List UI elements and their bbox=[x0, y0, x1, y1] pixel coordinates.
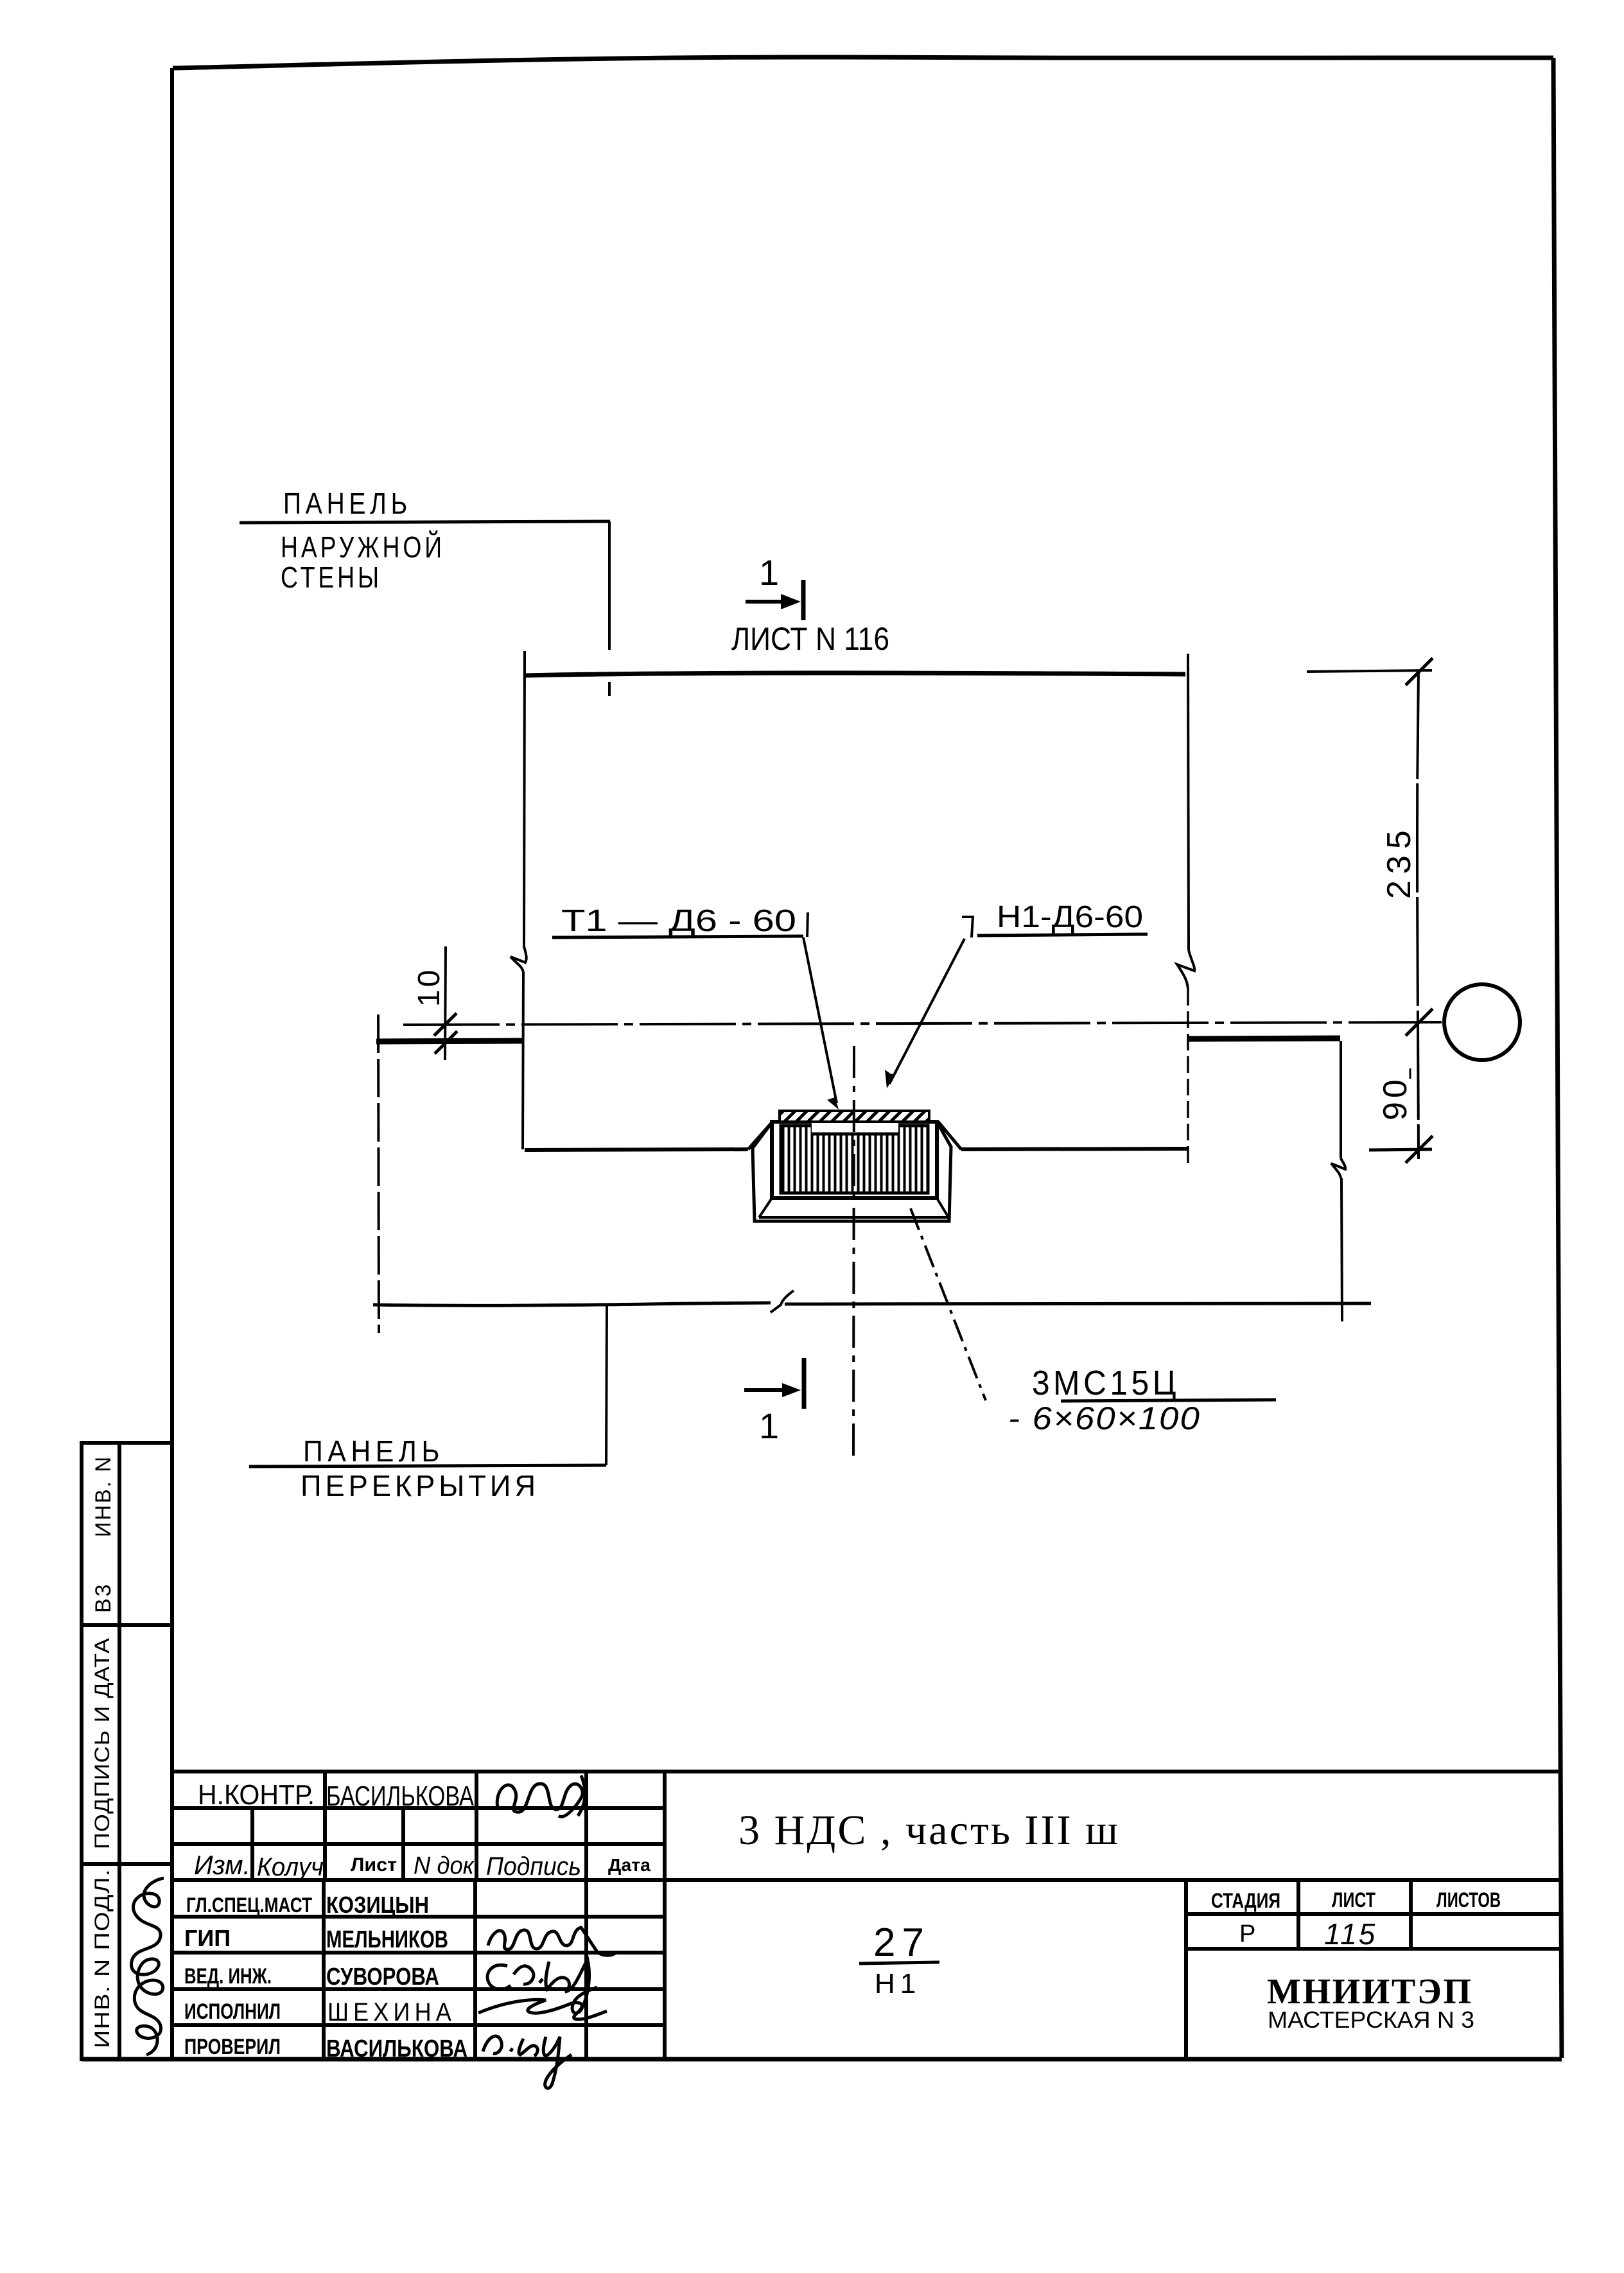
left auxiliary strip table bbox=[82, 1443, 172, 2059]
svg-text:Н.КОНТР.: Н.КОНТР. bbox=[198, 1779, 315, 1811]
axis centerline (dash-dot) bbox=[403, 1022, 1442, 1025]
signature (ИСПОЛНИЛ row) bbox=[478, 1999, 607, 2019]
bottom slab line (with break) bbox=[373, 1291, 1371, 1312]
svg-text:СТЕНЫ: СТЕНЫ bbox=[281, 561, 382, 594]
floor line right of drain bbox=[961, 1149, 1188, 1149]
svg-text:10: 10 bbox=[412, 968, 446, 1007]
svg-text:Лист: Лист bbox=[351, 1854, 397, 1876]
drain element: top gasket slot bbox=[812, 1123, 898, 1133]
svg-text:Н1: Н1 bbox=[875, 1968, 921, 1999]
svg-text:27: 27 bbox=[873, 1920, 930, 1965]
right chamfer into drain recess bbox=[938, 1122, 961, 1149]
right outer face extension line (with break) bbox=[1331, 1041, 1345, 1321]
leader line for ПАНЕЛЬ ПЕРЕКРЫТИЯ bbox=[249, 1306, 607, 1467]
section mark 1 (bottom) bbox=[744, 1358, 804, 1409]
svg-text:ШЕХИНА: ШЕХИНА bbox=[327, 1998, 456, 2026]
drawing frame border bbox=[172, 57, 1562, 2058]
svg-text:ИСПОЛНИЛ: ИСПОЛНИЛ bbox=[184, 1999, 281, 2024]
svg-text:235: 235 bbox=[1381, 824, 1418, 899]
svg-text:Изм.: Изм. bbox=[194, 1850, 250, 1880]
svg-text:N док: N док bbox=[414, 1852, 475, 1879]
drain element: flange inner 3D edges bbox=[759, 1198, 948, 1217]
left slab thick edge bbox=[376, 1041, 522, 1041]
svg-text:3 НДС , часть III ш: 3 НДС , часть III ш bbox=[738, 1807, 1121, 1854]
left outer face extension line bbox=[378, 1015, 379, 1333]
svg-text:ИНВ. N ПОДЛ.: ИНВ. N ПОДЛ. bbox=[91, 1868, 114, 2048]
svg-text:Р: Р bbox=[1239, 1920, 1255, 1947]
leader line for ПАНЕЛЬ НАРУЖНОЙ СТЕНЫ bbox=[240, 521, 610, 696]
signature (ПРОВЕРИЛ row) bbox=[483, 2036, 572, 2088]
svg-text:СТАДИЯ: СТАДИЯ bbox=[1211, 1889, 1280, 1912]
left chamfer into drain recess bbox=[748, 1122, 773, 1149]
svg-text:3МС15Ц: 3МС15Ц bbox=[1032, 1364, 1180, 1402]
svg-text:ПЕРЕКРЫТИЯ: ПЕРЕКРЫТИЯ bbox=[301, 1469, 539, 1502]
dimension 10: dimension line bbox=[434, 946, 457, 1060]
svg-text:- 6×60×100: - 6×60×100 bbox=[1008, 1400, 1201, 1436]
signature (Н.КОНТР row) bbox=[497, 1775, 585, 1816]
svg-text:ПОДПИСЬ И ДАТА: ПОДПИСЬ И ДАТА bbox=[91, 1637, 114, 1849]
svg-text:ЛИСТ N 116: ЛИСТ N 116 bbox=[731, 621, 889, 657]
svg-text:90: 90 bbox=[1377, 1076, 1414, 1120]
svg-text:МАСТЕРСКАЯ N 3: МАСТЕРСКАЯ N 3 bbox=[1268, 2007, 1474, 2033]
svg-text:КОЗИЦЫН: КОЗИЦЫН bbox=[326, 1892, 429, 1918]
svg-text:Подпись: Подпись bbox=[486, 1852, 581, 1881]
svg-text:ГЛ.СПЕЦ.МАСТ: ГЛ.СПЕЦ.МАСТ bbox=[186, 1894, 312, 1917]
drain element center line (dashed) bbox=[853, 1046, 854, 1463]
title block main table bbox=[172, 1772, 1562, 2059]
drain element: vertical corrugation hatch bbox=[781, 1126, 928, 1193]
svg-text:Т1 — Д6 - 60: Т1 — Д6 - 60 bbox=[561, 904, 796, 938]
svg-text:1: 1 bbox=[759, 552, 779, 593]
svg-text:НАРУЖНОЙ: НАРУЖНОЙ bbox=[281, 530, 445, 564]
svg-text:Дата: Дата bbox=[608, 1855, 650, 1875]
svg-text:ГИП: ГИП bbox=[184, 1925, 231, 1951]
svg-text:В3: В3 bbox=[91, 1582, 116, 1613]
label 3МС15Ц with dash-dot leader bbox=[911, 1208, 986, 1400]
svg-text:ВАСИЛЬКОВА: ВАСИЛЬКОВА bbox=[326, 2035, 467, 2062]
left strip inventory number scribble bbox=[132, 1878, 164, 2055]
svg-text:ЛИСТ: ЛИСТ bbox=[1332, 1888, 1375, 1912]
svg-text:СУВОРОВА: СУВОРОВА bbox=[326, 1964, 439, 1990]
svg-text:115: 115 bbox=[1324, 1917, 1377, 1951]
svg-text:БАСИЛЬКОВА: БАСИЛЬКОВА bbox=[326, 1781, 475, 1812]
dimension 235/90: vertical dimension line bbox=[1307, 658, 1433, 1163]
section mark 1 (top) bbox=[746, 580, 803, 620]
axis grid circle marker bbox=[1444, 984, 1520, 1060]
svg-text:МЕЛЬНИКОВ: МЕЛЬНИКОВ bbox=[326, 1926, 448, 1953]
floor line left of drain bbox=[525, 1149, 748, 1150]
right slab thick edge bbox=[1189, 1038, 1340, 1039]
title block bottom frame line bbox=[82, 2057, 1562, 2062]
drain element 3МС15Ц: bottom flange bbox=[753, 1122, 951, 1221]
left wall edge vertical (with break) bbox=[511, 651, 527, 1149]
svg-text:ИНВ. N: ИНВ. N bbox=[91, 1455, 116, 1537]
svg-text:ВЕД. ИНЖ.: ВЕД. ИНЖ. bbox=[184, 1964, 272, 1989]
drain element: top sealing band (diagonal hatch) bbox=[780, 1111, 929, 1122]
wall panel top edge bbox=[525, 673, 1185, 675]
svg-text:ПРОВЕРИЛ: ПРОВЕРИЛ bbox=[184, 2035, 281, 2059]
svg-text:ПАНЕЛЬ: ПАНЕЛЬ bbox=[303, 1434, 444, 1468]
right wall edge vertical (with break) bbox=[1177, 654, 1194, 1166]
drain element: body outer box bbox=[772, 1122, 937, 1198]
svg-text:1: 1 bbox=[759, 1406, 779, 1446]
svg-text:ПАНЕЛЬ: ПАНЕЛЬ bbox=[283, 487, 412, 520]
signature (ГИП row) bbox=[488, 1928, 616, 1955]
signature (ВЕД.ИНЖ row) bbox=[487, 1960, 597, 2013]
svg-text:ЛИСТОВ: ЛИСТОВ bbox=[1436, 1888, 1501, 1912]
svg-text:МНИИТЭП: МНИИТЭП bbox=[1267, 1972, 1478, 2012]
svg-text:Н1-Д6-60: Н1-Д6-60 bbox=[997, 900, 1143, 934]
svg-text:Колуч: Колуч bbox=[257, 1853, 324, 1881]
